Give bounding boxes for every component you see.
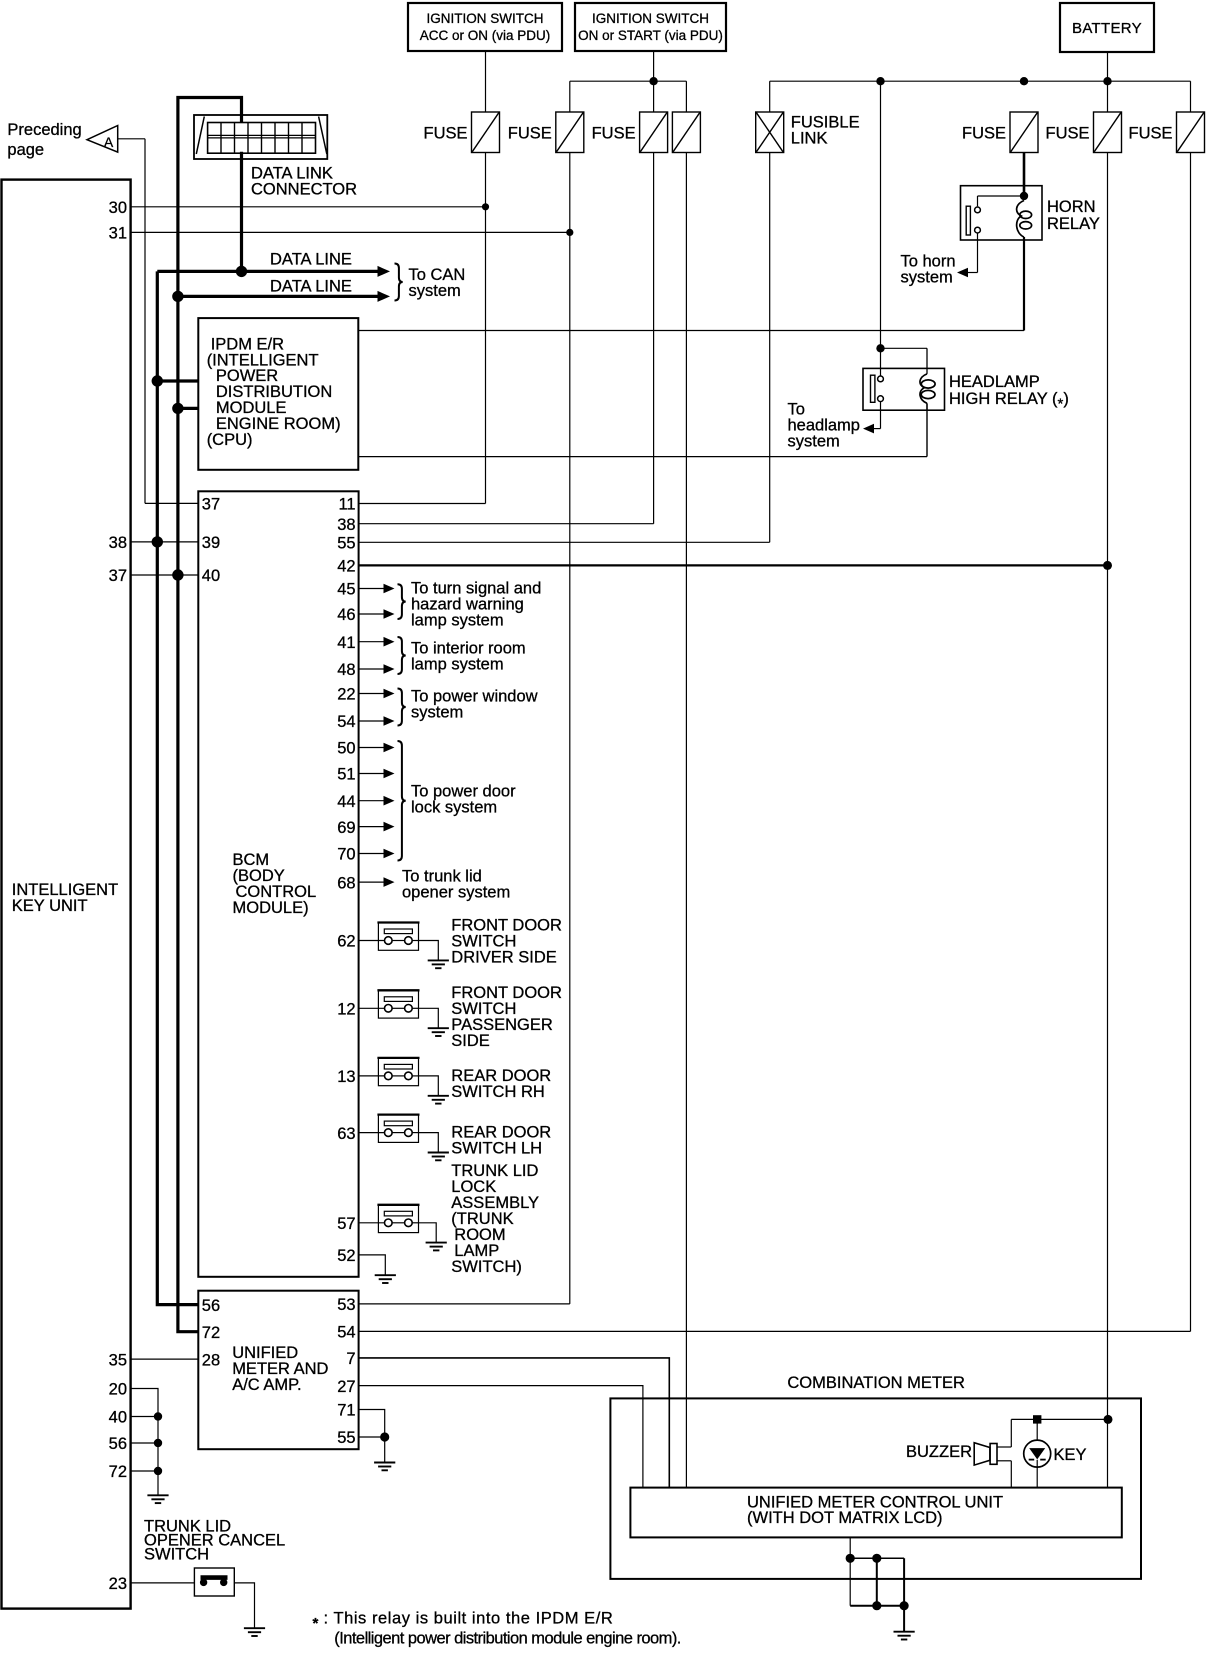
svg-text:FUSE: FUSE [962,125,1006,143]
svg-text:56: 56 [109,1435,127,1453]
svg-text:LINK: LINK [791,130,828,148]
svg-text:Preceding: Preceding [7,121,81,139]
svg-text:31: 31 [109,225,127,243]
svg-text:54: 54 [337,713,355,731]
svg-text:IGNITION SWITCH: IGNITION SWITCH [427,11,544,26]
svg-text:39: 39 [202,534,220,552]
svg-text:opener system: opener system [402,884,510,902]
svg-text:HORN: HORN [1047,198,1096,216]
svg-text:63: 63 [337,1125,355,1143]
svg-text:IGNITION SWITCH: IGNITION SWITCH [592,11,709,26]
svg-text:SWITCH LH: SWITCH LH [451,1140,542,1158]
svg-text:DRIVER SIDE: DRIVER SIDE [451,948,556,966]
svg-text:SWITCH RH: SWITCH RH [451,1083,545,1101]
svg-text:lock system: lock system [411,799,497,817]
svg-text:11: 11 [338,496,355,514]
svg-text:SWITCH: SWITCH [144,1545,209,1563]
svg-text:38: 38 [337,516,355,534]
svg-text:(CPU): (CPU) [207,431,253,449]
svg-text:FUSE: FUSE [423,125,467,143]
svg-text:51: 51 [337,766,355,784]
svg-text:50: 50 [337,740,355,758]
svg-text:30: 30 [109,199,127,217]
svg-text:FUSE: FUSE [1128,125,1172,143]
svg-text:system: system [788,433,840,451]
svg-text:RELAY: RELAY [1047,215,1100,233]
svg-text:56: 56 [202,1297,220,1315]
svg-text:(Intelligent power distributio: (Intelligent power distribution module e… [334,1630,681,1648]
svg-text:A/C AMP.: A/C AMP. [232,1376,301,1394]
svg-text:FUSE: FUSE [592,125,636,143]
svg-text:40: 40 [202,567,220,585]
svg-text:54: 54 [337,1324,355,1342]
svg-text:42: 42 [337,558,355,576]
svg-text:MODULE): MODULE) [233,899,309,917]
svg-text:DATA LINE: DATA LINE [270,251,352,269]
svg-text:38: 38 [109,534,127,552]
svg-text:lamp system: lamp system [411,612,504,630]
svg-text:28: 28 [202,1351,220,1369]
svg-text:system: system [901,269,953,287]
svg-text:system: system [409,282,461,300]
svg-text:68: 68 [337,874,355,892]
svg-text:A: A [104,134,114,150]
svg-text:37: 37 [109,567,127,585]
svg-text:CONNECTOR: CONNECTOR [251,181,357,199]
svg-text:72: 72 [109,1463,127,1481]
svg-text:45: 45 [337,581,355,599]
svg-text:page: page [7,141,44,159]
svg-text:SIDE: SIDE [451,1032,490,1050]
svg-text:BATTERY: BATTERY [1072,20,1142,37]
svg-text:70: 70 [337,846,355,864]
svg-text:(WITH DOT MATRIX LCD): (WITH DOT MATRIX LCD) [747,1509,943,1527]
svg-text:55: 55 [337,1429,355,1447]
svg-text:41: 41 [337,634,355,652]
svg-text:KEY UNIT: KEY UNIT [12,897,88,915]
svg-text:27: 27 [337,1378,355,1396]
svg-text:40: 40 [109,1409,127,1427]
svg-text:72: 72 [202,1324,220,1342]
svg-text:: This relay is built into the: : This relay is built into the IPDM E/R [324,1610,614,1628]
svg-text:HEADLAMP: HEADLAMP [949,373,1040,391]
svg-text:13: 13 [337,1068,355,1086]
svg-text:53: 53 [337,1296,355,1314]
svg-text:22: 22 [337,686,355,704]
svg-text:57: 57 [337,1215,355,1233]
svg-text:12: 12 [337,1001,355,1019]
svg-text:20: 20 [109,1381,127,1399]
svg-text:62: 62 [337,933,355,951]
svg-text:46: 46 [337,606,355,624]
svg-text:*: * [313,1615,319,1632]
svg-text:ACC or ON (via PDU): ACC or ON (via PDU) [420,28,551,43]
svg-text:35: 35 [109,1351,127,1369]
svg-text:48: 48 [337,661,355,679]
svg-text:ON or START (via PDU): ON or START (via PDU) [578,28,723,43]
svg-text:71: 71 [337,1402,355,1420]
svg-text:7: 7 [346,1350,355,1368]
svg-text:DATA LINE: DATA LINE [270,278,352,296]
svg-text:lamp system: lamp system [411,656,504,674]
svg-text:BUZZER: BUZZER [906,1443,972,1461]
svg-text:52: 52 [337,1247,355,1265]
svg-text:23: 23 [109,1575,127,1593]
svg-text:44: 44 [337,793,355,811]
svg-text:37: 37 [202,496,220,514]
svg-text:55: 55 [337,535,355,553]
svg-text:system: system [411,704,463,722]
svg-text:FUSE: FUSE [1045,125,1089,143]
svg-text:KEY: KEY [1054,1446,1087,1464]
svg-text:FUSE: FUSE [508,125,552,143]
svg-text:69: 69 [337,819,355,837]
svg-text:COMBINATION METER: COMBINATION METER [787,1374,965,1392]
svg-text:SWITCH): SWITCH) [451,1258,522,1276]
